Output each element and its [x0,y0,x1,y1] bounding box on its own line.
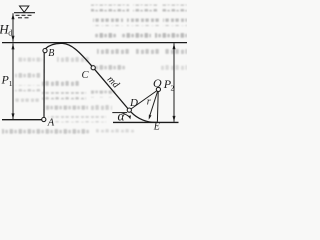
svg-text:r: r [147,97,151,108]
arrowhead down at crest line [12,36,15,42]
radius line O-E [156,92,159,122]
svg-text:O: O [153,76,162,90]
svg-text:d: d [8,28,12,37]
arrowhead down P2 bottom [173,116,176,122]
arrowhead down at ground [12,113,15,119]
svg-text:B: B [48,48,54,59]
point D [127,108,131,112]
faint show-through text rows (background texture) [2,5,187,137]
radius line O-D [131,91,157,109]
arrowhead up at water level [12,13,15,19]
svg-text:α: α [118,108,126,123]
ground line at A (bottom left) [2,119,42,121]
arrowhead up P2 top [173,43,176,49]
point O [156,87,160,91]
svg-text:C: C [82,70,90,81]
water surface symbol (nabla over hatches) [14,6,35,18]
point C [91,66,95,70]
svg-text:2: 2 [171,83,175,92]
baseline at E (bottom right) [113,121,179,123]
spillway trajectory curve B to D [45,43,128,108]
point A [42,117,46,121]
alpha angle arc [122,113,130,118]
crest level line (top horizontal line, full width) [2,42,187,44]
svg-text:D: D [129,97,138,109]
wall from B down to A [43,53,45,118]
dimension line P2 (vertical, right) [173,43,175,122]
svg-text:1: 1 [9,79,13,88]
arrowhead of alpha arc [128,115,131,119]
transition arc D to E [131,112,157,122]
arrowhead up below crest line [12,43,15,49]
alpha horizontal reference line [112,112,127,114]
svg-text:E: E [153,121,160,132]
point B [43,49,47,53]
radius arrow r [150,91,158,116]
dimension line Hd / P1 (vertical, left) [12,13,14,42]
svg-text:A: A [47,117,55,128]
arrowhead of radius r on arc [149,115,152,120]
